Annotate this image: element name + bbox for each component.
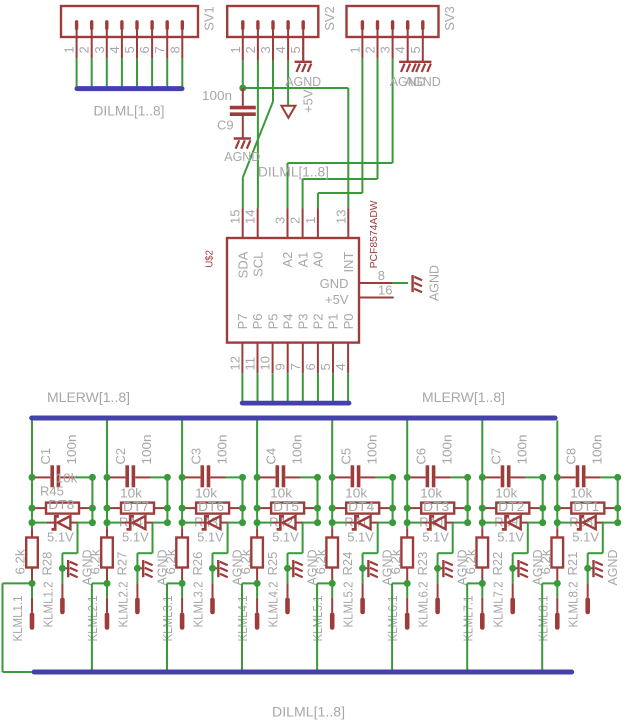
svg-text:100n: 100n [214, 435, 229, 465]
wire SV1 pin 3 to bus DILML [106, 58, 108, 86]
U2 bottom pin 10 (P5) [272, 343, 274, 374]
pin KLML2.1 [106, 583, 108, 597]
svg-text:100n: 100n [289, 435, 304, 465]
SV2 pin 4 line and number [287, 37, 289, 61]
wire SV2 pin2 to IC pin 14 SCL [257, 61, 259, 209]
wire KLML6.1 to bus DILML [392, 582, 407, 584]
SV2 pin 1 line and number [242, 37, 244, 61]
svg-text:DILML[1..8]: DILML[1..8] [258, 163, 329, 179]
U2 top pin 14 (SCL) [257, 209, 259, 239]
wire KLML7.1 to bus DILML [467, 582, 482, 584]
ground AGND at cell 8 [588, 567, 593, 569]
svg-text:DT3: DT3 [423, 499, 449, 514]
SV1 pin 5 line and number [136, 37, 138, 58]
connector SV3 [347, 6, 439, 37]
junction nodes cell 8 [554, 474, 561, 481]
svg-text:DT4: DT4 [348, 499, 374, 514]
svg-text:6.2k: 6.2k [13, 549, 28, 575]
svg-text:KLML1.1: KLML1.1 [10, 596, 25, 642]
wire tap to KLML7.2 pin [527, 523, 529, 554]
wire U2 pin 11 to bus MLERW [257, 373, 259, 401]
svg-text:P3: P3 [296, 313, 311, 329]
resistor R23 6.2k vertical [406, 528, 408, 537]
pin KLML5.2 [362, 568, 364, 583]
svg-text:P6: P6 [250, 313, 265, 329]
wire diode row into left column cell 8 [557, 522, 572, 524]
resistor R39 10k [485, 507, 497, 509]
svg-text:1: 1 [303, 217, 318, 224]
svg-text:3: 3 [92, 46, 107, 53]
wire bus MLERW to cell 8 [556, 421, 558, 529]
wire diode row into left column cell 2 [107, 522, 122, 524]
U2 pin 8 GND [359, 282, 393, 284]
svg-text:7: 7 [288, 363, 303, 370]
wire tap to KLML5.2 pin [377, 523, 379, 554]
svg-text:16: 16 [378, 283, 392, 298]
svg-text:5.1V: 5.1V [272, 530, 299, 545]
svg-text:KLML2.2: KLML2.2 [115, 582, 130, 628]
svg-text:5.1V: 5.1V [197, 530, 224, 545]
svg-text:5.1V: 5.1V [47, 530, 74, 545]
U2 bottom pin 7 (P3) [302, 343, 304, 374]
junction nodes cell 7 [479, 474, 486, 481]
junction node +5V/C9 at SV2 pin1 [239, 85, 246, 92]
svg-text:SV1: SV1 [202, 6, 217, 31]
svg-text:R22: R22 [490, 552, 505, 576]
svg-text:SCL: SCL [250, 252, 265, 277]
wire SV1 pin 8 to bus DILML [181, 58, 183, 86]
wire tap to KLML1.2 pin [77, 523, 79, 554]
pin KLML7.2 [512, 568, 514, 583]
svg-text:5.1V: 5.1V [572, 530, 599, 545]
resistor R38 10k [560, 507, 572, 509]
U2 top pin 2 (A1) [302, 209, 304, 239]
resistor R28 6.2k vertical [31, 528, 33, 537]
svg-text:AGND: AGND [427, 265, 442, 301]
resistor R44 10k [110, 507, 122, 509]
svg-text:P2: P2 [311, 313, 326, 329]
zener diode DT4 5.1V [347, 522, 354, 524]
zener diode DT7 5.1V [122, 522, 129, 524]
svg-text:KLML1.2: KLML1.2 [40, 582, 55, 628]
svg-text:100n: 100n [515, 435, 530, 465]
pin KLML1.2 [61, 568, 63, 583]
wire U2 pin 12 to bus MLERW [241, 373, 243, 401]
pin KLML6.1 [406, 583, 408, 597]
junction nodes cell 6 [404, 474, 411, 481]
pin KLML1.1 [31, 583, 33, 597]
SV1 pin 3 line and number [106, 37, 108, 58]
U2 bottom pin 4 (P0) [347, 343, 349, 374]
svg-text:DILML[1..8]: DILML[1..8] [94, 102, 165, 118]
svg-text:R25: R25 [265, 552, 280, 576]
ground AGND at SV2 pin 5 [302, 37, 304, 62]
svg-text:100n: 100n [439, 435, 454, 465]
ground AGND at cell 2 [137, 567, 142, 569]
ground AGND at cell 5 [363, 567, 368, 569]
svg-text:U$2: U$2 [204, 250, 216, 268]
wire SV2 pin4 to +5V symbol [287, 61, 289, 106]
svg-text:AGND: AGND [605, 550, 620, 586]
capacitor C9 [242, 88, 244, 106]
svg-text:C4: C4 [263, 448, 278, 465]
svg-text:A2: A2 [280, 252, 295, 268]
svg-text:5: 5 [318, 363, 333, 370]
svg-text:R27: R27 [115, 552, 130, 576]
svg-text:10: 10 [258, 356, 273, 370]
SV2 pin 2 line and number [257, 37, 259, 61]
svg-text:5: 5 [408, 46, 423, 53]
svg-text:4: 4 [333, 363, 348, 370]
svg-text:C2: C2 [113, 448, 128, 465]
wire diode row into left column cell 5 [332, 522, 347, 524]
svg-text:GND: GND [320, 276, 349, 291]
U2 top pin 13 (INT) [347, 209, 349, 239]
capacitor C7 100n [485, 476, 500, 478]
junction nodes cell 3 [179, 474, 186, 481]
svg-text:13: 13 [333, 210, 348, 224]
svg-text:C5: C5 [338, 448, 353, 465]
svg-text:4: 4 [393, 46, 408, 53]
wire +5V down to IC pin 13 [347, 88, 349, 209]
pin KLML8.1 [556, 583, 558, 597]
SV1 pin 7 line and number [166, 37, 168, 58]
svg-text:A1: A1 [295, 252, 310, 268]
wire KLML1.1 to bus DILML [3, 582, 33, 584]
SV3 pin 4 line and number [407, 37, 409, 62]
svg-text:INT: INT [341, 252, 356, 273]
svg-text:3: 3 [273, 217, 288, 224]
svg-text:11: 11 [243, 357, 258, 371]
svg-text:R26: R26 [190, 552, 205, 576]
bus DILML[1..8] bottom [34, 670, 572, 675]
wire right column cell 3 [242, 477, 244, 522]
pin KLML2.2 [136, 568, 138, 583]
wire right column cell 5 [392, 477, 394, 522]
connector SV1 [61, 6, 198, 37]
SV1 pin 1 line and number [76, 37, 78, 58]
wire bus MLERW to cell 4 [256, 421, 258, 529]
svg-text:6.2k: 6.2k [313, 549, 328, 575]
wire diode row into left column cell 7 [482, 522, 497, 524]
svg-text:5.1V: 5.1V [347, 530, 374, 545]
wire U2 pin 5 to bus MLERW [332, 373, 334, 401]
resistor R24 6.2k vertical [331, 528, 333, 537]
svg-text:P7: P7 [235, 313, 250, 329]
capacitor C1 100n [35, 476, 50, 478]
zener diode DT5 5.1V [272, 522, 279, 524]
SV1 pin 2 line and number [91, 37, 93, 58]
capacitor C2 100n [110, 476, 125, 478]
ground AGND at cell 7 [513, 567, 518, 569]
SV3 pin 3 line and number [392, 37, 394, 59]
wire bus MLERW to cell 7 [481, 421, 483, 529]
ground AGND at SV3 pin 5 [414, 61, 431, 63]
svg-text:8: 8 [378, 268, 385, 283]
svg-text:100n: 100n [590, 435, 605, 465]
wire bus MLERW to cell 2 [106, 421, 108, 529]
svg-text:2: 2 [363, 46, 378, 53]
ground AGND at U2 pin 8 [411, 275, 413, 292]
pin KLML4.2 [287, 568, 289, 583]
svg-text:1: 1 [228, 46, 243, 53]
svg-text:MLERW[1..8]: MLERW[1..8] [47, 389, 130, 405]
resistor R26 6.2k vertical [181, 528, 183, 537]
svg-text:6.2k: 6.2k [463, 549, 478, 575]
capacitor C6 100n [410, 476, 425, 478]
wire KLML2.1 to bus DILML [92, 582, 107, 584]
svg-text:C8: C8 [564, 448, 579, 465]
SV1 pin 8 line and number [181, 37, 183, 58]
svg-text:SDA: SDA [235, 251, 250, 278]
supply +5V symbol [281, 106, 295, 118]
wire bus MLERW to cell 1 [31, 421, 33, 529]
pin KLML8.2 [587, 568, 589, 583]
svg-text:PCF8574ADW: PCF8574ADW [368, 200, 380, 268]
wire right column cell 1 [91, 477, 93, 522]
wire right column cell 8 [617, 477, 619, 522]
svg-text:1: 1 [347, 46, 362, 53]
wire right column cell 4 [317, 477, 319, 522]
svg-text:DT7: DT7 [123, 499, 149, 514]
svg-text:DT8: DT8 [48, 497, 74, 512]
svg-text:1: 1 [62, 46, 77, 53]
ground AGND at cell 3 [213, 567, 218, 569]
U2 bottom pin 6 (P2) [317, 343, 319, 374]
SV1 pin 4 line and number [121, 37, 123, 58]
junction nodes cell 5 [329, 474, 336, 481]
wire tap to KLML6.2 pin [452, 523, 454, 554]
resistor R22 6.2k vertical [481, 528, 483, 537]
zener diode DT6 5.1V [197, 522, 204, 524]
svg-text:5: 5 [288, 46, 303, 53]
resistor R43 10k [185, 507, 197, 509]
svg-text:KLML3.2: KLML3.2 [190, 582, 205, 628]
resistor R21 6.2k vertical [556, 528, 558, 537]
svg-text:DT1: DT1 [573, 499, 599, 514]
wire bus MLERW to cell 6 [406, 421, 408, 529]
U2 bottom pin 5 (P1) [332, 343, 334, 374]
pin KLML3.1 [181, 583, 183, 597]
svg-text:7: 7 [152, 46, 167, 53]
pin KLML3.2 [212, 568, 214, 583]
wire U2 pin 6 to bus MLERW [317, 373, 319, 401]
svg-text:AGND: AGND [224, 149, 260, 164]
svg-text:R23: R23 [415, 552, 430, 576]
U2 top pin 1 (A0) [317, 209, 319, 239]
SV3 pin 5 line and number [422, 37, 424, 62]
wire diode row into left column cell 1 [32, 522, 47, 524]
wire SV1 pin 6 to bus DILML [151, 58, 153, 86]
SV3 pin 2 line and number [377, 37, 379, 59]
wire diagonal SV2 pin3 to SDA column [243, 102, 273, 178]
wire U2 pin 8 to AGND [393, 282, 408, 284]
svg-text:6.2k: 6.2k [388, 549, 403, 575]
wire U2 pin 10 to bus MLERW [272, 373, 274, 401]
svg-text:P5: P5 [265, 313, 280, 329]
resistor R27 6.2k vertical [106, 528, 108, 537]
svg-text:AGND: AGND [405, 74, 441, 89]
svg-text:DT5: DT5 [273, 499, 299, 514]
wire SV3 pin1 to IC A0 [361, 59, 363, 193]
wire U2 pin 9 to bus MLERW [287, 373, 289, 401]
wire SV1 pin 7 to bus DILML [166, 58, 168, 86]
ground AGND at cell 6 [438, 567, 443, 569]
wire diode row into left column cell 4 [257, 522, 272, 524]
resistor R40 10k [410, 507, 422, 509]
resistor R42 10k [260, 507, 272, 509]
wire KLML8.1 to bus DILML [542, 582, 557, 584]
svg-text:P0: P0 [341, 313, 356, 329]
wire SV3 pin3 to IC A2 [392, 59, 394, 163]
U2 pin 16 +5V [359, 297, 394, 299]
capacitor C8 100n [560, 476, 575, 478]
pin KLML7.1 [481, 583, 483, 597]
junction nodes cell 1 [29, 474, 36, 481]
wire SV1 pin 2 to bus DILML [91, 58, 93, 86]
U2 bottom pin 9 (P4) [287, 343, 289, 374]
wire right column cell 6 [467, 477, 469, 522]
svg-text:R21: R21 [565, 552, 580, 576]
svg-text:5.1V: 5.1V [122, 530, 149, 545]
U2 bottom pin 11 (P6) [257, 343, 259, 374]
SV2 pin 3 line and number [272, 37, 274, 61]
svg-text:6.2k: 6.2k [88, 549, 103, 575]
junction nodes cell 4 [254, 474, 261, 481]
ground AGND at SV3 pin 4 [399, 61, 416, 63]
svg-text:R24: R24 [340, 552, 355, 576]
wire U2 pin 7 to bus MLERW [302, 373, 304, 401]
svg-text:5: 5 [122, 46, 137, 53]
SV2 pin 5 line and number [302, 37, 304, 61]
bus MLERW segment under U2 [242, 401, 349, 406]
zener diode DT1 5.1V [572, 522, 579, 524]
svg-text:C7: C7 [489, 448, 504, 465]
wire tap to KLML3.2 pin [227, 523, 229, 554]
wire +5V horizontal [243, 87, 348, 89]
connector SV2 [227, 6, 318, 37]
resistor R41 10k [335, 507, 347, 509]
svg-text:SV2: SV2 [322, 6, 337, 31]
svg-text:100n: 100n [202, 88, 232, 103]
svg-text:6.2k: 6.2k [238, 549, 253, 575]
wire down to IC pin 15 SDA [242, 178, 244, 209]
svg-text:9: 9 [273, 363, 288, 370]
bus MLERW[1..8] main [32, 416, 555, 421]
wire KLML5.1 to bus DILML [317, 582, 332, 584]
resistor R45 10k [35, 507, 47, 509]
svg-text:SV3: SV3 [442, 6, 457, 31]
wire tap to KLML8.2 pin [602, 523, 604, 554]
capacitor C4 100n [260, 476, 275, 478]
svg-text:KLML5.2: KLML5.2 [341, 582, 356, 628]
svg-text:4: 4 [107, 46, 122, 53]
junction nodes cell 2 [104, 474, 111, 481]
zener diode DT3 5.1V [422, 522, 429, 524]
U2 top pin 3 (A2) [287, 209, 289, 239]
pin KLML6.2 [437, 568, 439, 583]
resistor R25 6.2k vertical [256, 528, 258, 537]
pin KLML5.1 [331, 583, 333, 597]
svg-text:KLML4.2: KLML4.2 [265, 582, 280, 628]
svg-text:6.2k: 6.2k [538, 549, 553, 575]
ground AGND at cell 1 [62, 567, 67, 569]
zener diode DT2 5.1V [497, 522, 504, 524]
wire SV1 pin 4 to bus DILML [121, 58, 123, 86]
wire SV3 pin2 to IC A1 [377, 59, 379, 179]
svg-text:R28: R28 [40, 552, 55, 576]
wire diode row into left column cell 6 [407, 522, 422, 524]
svg-text:6.2k: 6.2k [163, 549, 178, 575]
wire KLML3.1 to bus DILML [167, 582, 182, 584]
wire SV1 pin 1 to bus DILML [76, 58, 78, 86]
capacitor C3 100n [185, 476, 200, 478]
svg-text:4: 4 [273, 46, 288, 53]
svg-text:6: 6 [137, 46, 152, 53]
ground AGND below C9 [234, 137, 251, 139]
wire U2 pin 4 to bus MLERW [347, 373, 349, 401]
svg-text:5.1V: 5.1V [422, 530, 449, 545]
wire tap to KLML4.2 pin [302, 523, 304, 554]
svg-text:+5V: +5V [301, 89, 316, 113]
svg-text:100n: 100n [139, 435, 154, 465]
svg-text:5.1V: 5.1V [497, 530, 524, 545]
SV1 pin 6 line and number [151, 37, 153, 58]
svg-text:2: 2 [243, 46, 258, 53]
U2 top pin 15 (SDA) [242, 209, 244, 239]
wire bus MLERW to cell 5 [331, 421, 333, 529]
pin KLML4.1 [256, 583, 258, 597]
svg-text:+5V: +5V [325, 292, 349, 307]
svg-text:C3: C3 [188, 448, 203, 465]
wire right column cell 2 [166, 477, 168, 522]
svg-text:C1: C1 [38, 448, 53, 465]
svg-text:3: 3 [378, 46, 393, 53]
svg-text:6: 6 [303, 363, 318, 370]
svg-text:KLML8.2: KLML8.2 [566, 582, 581, 628]
svg-text:14: 14 [243, 210, 258, 224]
bus DILML[1..8] under SV1 [77, 86, 182, 91]
wire SV2 pin1 to +5V node [242, 61, 244, 88]
svg-text:100n: 100n [364, 435, 379, 465]
wire diode row into left column cell 3 [182, 522, 197, 524]
ground AGND at cell 4 [288, 567, 293, 569]
svg-text:A0: A0 [311, 252, 326, 268]
svg-text:DT2: DT2 [498, 499, 524, 514]
svg-text:P4: P4 [280, 313, 295, 329]
wire KLML4.1 to bus DILML [242, 582, 257, 584]
svg-text:KLML7.2: KLML7.2 [491, 582, 506, 628]
wire SV1 pin 5 to bus DILML [136, 58, 138, 86]
SV3 pin 1 line and number [361, 37, 363, 59]
svg-text:DT6: DT6 [198, 499, 224, 514]
wire tap to KLML2.2 pin [152, 523, 154, 554]
svg-text:C6: C6 [413, 448, 428, 465]
svg-text:3: 3 [258, 46, 273, 53]
svg-text:MLERW[1..8]: MLERW[1..8] [422, 389, 505, 405]
svg-text:P1: P1 [326, 313, 341, 329]
wire right column cell 7 [542, 477, 544, 522]
svg-text:8: 8 [167, 46, 182, 53]
svg-text:2: 2 [77, 46, 92, 53]
op-amp U2 PCF8574ADW box [227, 238, 359, 343]
svg-text:AGND: AGND [285, 74, 321, 89]
zener diode DT8 5.1V [47, 522, 54, 524]
wire SV2 pin3 down [272, 61, 274, 102]
svg-text:DILML[1..8]: DILML[1..8] [272, 703, 345, 719]
wire bus MLERW to cell 3 [181, 421, 183, 529]
svg-text:2: 2 [288, 217, 303, 224]
